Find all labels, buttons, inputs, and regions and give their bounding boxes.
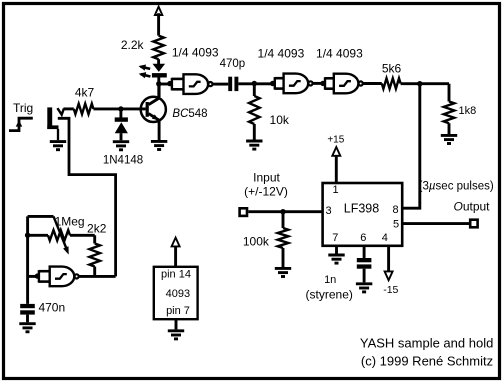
svg-text:(+/-12V): (+/-12V) [244, 185, 288, 199]
svg-text:4: 4 [382, 232, 388, 244]
svg-text:LF398: LF398 [344, 202, 379, 216]
svg-text:1Meg: 1Meg [55, 215, 85, 229]
svg-text:+15: +15 [327, 134, 344, 145]
svg-text:1N4148: 1N4148 [103, 155, 143, 167]
svg-text:1/4 4093: 1/4 4093 [316, 46, 363, 60]
svg-text:470n: 470n [38, 301, 65, 315]
svg-text:pin 14: pin 14 [161, 269, 191, 281]
svg-text:pin 7: pin 7 [166, 305, 190, 317]
svg-text:Trig: Trig [13, 101, 33, 115]
svg-text:2.2k: 2.2k [121, 38, 145, 52]
svg-text:4093: 4093 [166, 288, 190, 300]
svg-text:7: 7 [332, 232, 338, 244]
svg-text:100k: 100k [243, 235, 270, 249]
svg-text:-15: -15 [383, 284, 398, 296]
svg-text:5k6: 5k6 [382, 62, 402, 76]
svg-text:1/4 4093: 1/4 4093 [258, 46, 305, 60]
svg-text:5: 5 [393, 218, 399, 230]
svg-text:BC548: BC548 [172, 108, 207, 120]
svg-text:8: 8 [392, 204, 398, 216]
svg-text:(3µsec pulses): (3µsec pulses) [419, 180, 494, 192]
svg-text:(styrene): (styrene) [306, 287, 353, 301]
svg-text:470p: 470p [220, 58, 246, 70]
svg-text:2k2: 2k2 [87, 222, 107, 236]
svg-text:Input: Input [253, 171, 280, 185]
svg-text:YASH sample and hold: YASH sample and hold [360, 336, 493, 351]
svg-text:4k7: 4k7 [75, 86, 95, 100]
svg-text:1k8: 1k8 [459, 105, 477, 117]
svg-text:3: 3 [325, 205, 331, 217]
svg-text:6: 6 [360, 232, 366, 244]
svg-text:10k: 10k [270, 113, 290, 127]
svg-text:1: 1 [332, 184, 338, 196]
svg-text:1/4 4093: 1/4 4093 [172, 45, 219, 59]
svg-text:Output: Output [453, 199, 490, 213]
svg-text:1n: 1n [324, 274, 336, 286]
svg-text:(c) 1999 René Schmitz: (c) 1999 René Schmitz [361, 354, 493, 369]
